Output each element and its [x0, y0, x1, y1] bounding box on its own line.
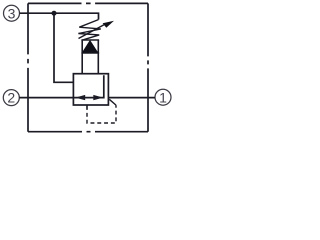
left arrowhead: [75, 95, 85, 100]
internal flow path: [73, 75, 103, 97]
poppet (filled triangle): [82, 40, 98, 53]
drain stub: [86, 105, 88, 109]
dashed pilot diagonal: [109, 99, 116, 105]
port circle 2: [3, 90, 19, 106]
spring: [78, 20, 100, 40]
port circle 1: [155, 89, 171, 105]
poppet seat line: [81, 52, 99, 54]
envelope left edge (chain line): [27, 3, 29, 131]
right arrowhead: [93, 95, 103, 100]
svg-text:3: 3: [8, 5, 16, 21]
valve body square: [73, 74, 108, 105]
wire port3 to spring top: [20, 13, 99, 19]
adjustment arrowhead: [103, 21, 114, 28]
poppet box top edge: [81, 39, 99, 41]
envelope bottom edge (chain line): [28, 131, 148, 133]
seat tube left wall: [81, 40, 83, 74]
wire port2 to valve left: [19, 97, 73, 99]
port circle 3: [4, 5, 20, 21]
seat tube right wall: [97, 40, 99, 74]
dashed pilot path: [87, 105, 116, 123]
wire valve right to port1: [108, 97, 155, 99]
svg-text:1: 1: [159, 89, 167, 105]
junction dot: [52, 11, 57, 16]
envelope top edge (chain line): [28, 2, 148, 4]
adjustment arrow shaft: [79, 25, 105, 39]
envelope right edge (chain line): [147, 3, 149, 131]
pilot wire junction to valve left: [54, 13, 73, 82]
svg-text:2: 2: [7, 90, 15, 106]
